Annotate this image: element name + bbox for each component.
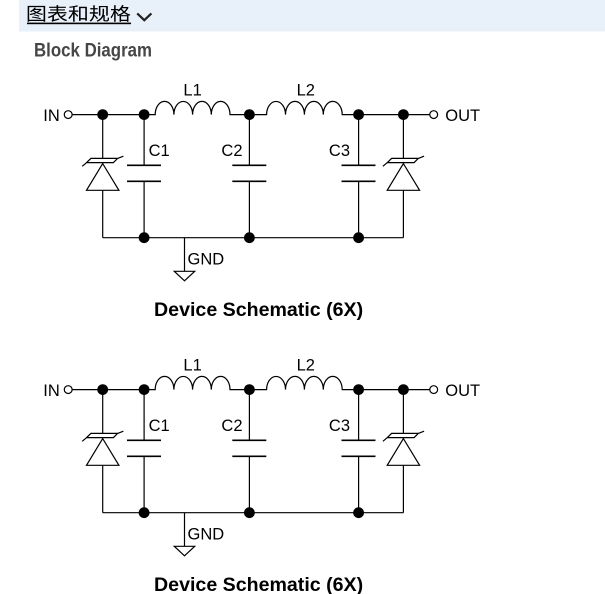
junction node D (L2 / C3 tap)	[353, 109, 364, 120]
section header band	[19, 0, 605, 32]
TVS diode D1 (left)	[82, 115, 123, 238]
schematic 2: top rail wire with terminals	[72, 376, 430, 389]
junction node B (C1 / L1 tap)	[139, 384, 150, 395]
junction node F (C1 bottom)	[139, 507, 150, 518]
junction node H (C3 bottom)	[353, 232, 364, 243]
svg-text:L1: L1	[183, 82, 201, 100]
schematic 1: top rail wire with terminals	[72, 101, 430, 114]
svg-text:C2: C2	[221, 142, 242, 160]
capacitor C3	[342, 115, 376, 238]
capacitor C1	[127, 115, 161, 238]
wire: bottom ground rail	[103, 512, 404, 514]
junction node F (C1 bottom)	[139, 232, 150, 243]
svg-text:C3: C3	[329, 142, 350, 160]
OUT terminal circle	[430, 386, 438, 394]
junction node H (C3 bottom)	[353, 507, 364, 518]
capacitor C3	[342, 390, 376, 513]
svg-text:L1: L1	[183, 357, 201, 375]
capacitor C2	[232, 390, 266, 513]
svg-text:C2: C2	[221, 417, 242, 435]
svg-text:GND: GND	[188, 251, 225, 269]
ground symbol	[174, 513, 194, 556]
underline of section title	[27, 23, 131, 25]
junction node G (C2 bottom)	[244, 232, 255, 243]
IN terminal circle	[64, 386, 72, 394]
svg-text:L2: L2	[297, 357, 315, 375]
junction node C (L1 / C2 / L2 tap)	[244, 109, 255, 120]
ground symbol	[174, 238, 194, 281]
junction node D (L2 / C3 tap)	[353, 384, 364, 395]
junction node G (C2 bottom)	[244, 507, 255, 518]
svg-text:OUT: OUT	[445, 382, 480, 400]
svg-text:C1: C1	[149, 142, 170, 160]
svg-text:IN: IN	[43, 382, 60, 400]
svg-text:OUT: OUT	[445, 107, 480, 125]
svg-text:C3: C3	[329, 417, 350, 435]
TVS diode D1 (left)	[82, 390, 123, 513]
chevron down icon	[138, 14, 151, 20]
svg-text:Device Schematic (6X): Device Schematic (6X)	[154, 299, 363, 321]
wire: top rail IN to OUT with inductor humps	[72, 376, 430, 389]
TVS diode D2 (right)	[383, 390, 424, 513]
wire: bottom ground rail	[103, 237, 404, 239]
IN terminal circle	[64, 111, 72, 119]
svg-text:IN: IN	[43, 107, 60, 125]
section title 图表和规格 (glyph outlines)	[28, 5, 131, 22]
junction node A (left diode tap)	[97, 384, 108, 395]
junction node E (right diode tap)	[398, 384, 409, 395]
svg-text:L2: L2	[297, 82, 315, 100]
junction node C (L1 / C2 / L2 tap)	[244, 384, 255, 395]
wire: top rail IN to OUT with inductor humps	[72, 101, 430, 114]
OUT terminal circle	[430, 111, 438, 119]
svg-text:C1: C1	[149, 417, 170, 435]
svg-text:GND: GND	[188, 526, 225, 544]
junction node E (right diode tap)	[398, 109, 409, 120]
svg-text:Block Diagram: Block Diagram	[34, 41, 152, 62]
TVS diode D2 (right)	[383, 115, 424, 238]
capacitor C2	[232, 115, 266, 238]
svg-text:Device Schematic (6X): Device Schematic (6X)	[154, 574, 363, 594]
junction node B (C1 / L1 tap)	[139, 109, 150, 120]
junction node A (left diode tap)	[97, 109, 108, 120]
capacitor C1	[127, 390, 161, 513]
